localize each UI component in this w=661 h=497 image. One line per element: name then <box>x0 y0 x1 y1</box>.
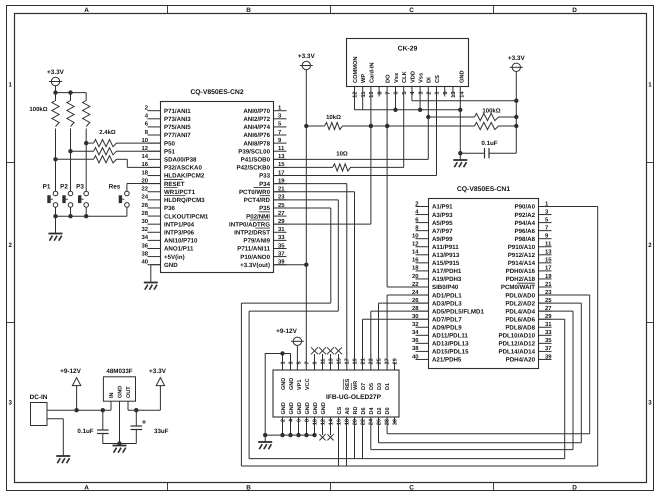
svg-text:5: 5 <box>402 92 408 95</box>
svg-text:+3.3V(out): +3.3V(out) <box>240 262 270 269</box>
svg-text:A19/PDH3: A19/PDH3 <box>432 276 462 283</box>
svg-text:11: 11 <box>278 145 285 152</box>
svg-text:27: 27 <box>385 358 391 364</box>
svg-text:P35: P35 <box>259 205 271 212</box>
svg-text:P98/A8: P98/A8 <box>515 236 536 243</box>
svg-text:11: 11 <box>361 92 367 98</box>
svg-text:27: 27 <box>278 210 285 217</box>
svg-text:INTP0/ADTRG: INTP0/ADTRG <box>229 221 270 228</box>
svg-text:+9-12V: +9-12V <box>276 328 298 335</box>
svg-text:1: 1 <box>435 92 441 95</box>
svg-text:22: 22 <box>361 419 367 425</box>
svg-text:21: 21 <box>545 281 552 288</box>
svg-text:P79/ANI9: P79/ANI9 <box>243 238 270 245</box>
svg-text:+3.3V: +3.3V <box>298 53 316 60</box>
svg-text:GND: GND <box>313 402 319 414</box>
svg-text:15: 15 <box>545 257 552 264</box>
svg-text:SIB0/P40: SIB0/P40 <box>432 284 459 291</box>
svg-text:3: 3 <box>648 400 652 407</box>
svg-text:P914/A14: P914/A14 <box>508 260 536 267</box>
svg-text:B: B <box>246 484 251 491</box>
svg-text:PDH0/A16: PDH0/A16 <box>506 268 536 275</box>
svg-text:RD: RD <box>353 407 359 415</box>
svg-text:WR: WR <box>353 381 359 390</box>
svg-text:7: 7 <box>305 361 311 364</box>
svg-text:40: 40 <box>412 353 419 360</box>
svg-text:A1/P91: A1/P91 <box>432 204 453 211</box>
svg-text:48M033F: 48M033F <box>106 368 132 375</box>
svg-text:D2: D2 <box>377 407 383 414</box>
svg-text:P1: P1 <box>43 184 51 191</box>
svg-text:VCC: VCC <box>305 378 311 390</box>
svg-text:28: 28 <box>141 210 148 217</box>
svg-text:D3: D3 <box>377 383 383 390</box>
svg-text:CQ-V850ES-CN1: CQ-V850ES-CN1 <box>457 186 510 193</box>
svg-text:RESET: RESET <box>164 181 185 188</box>
svg-text:SDA00/P38: SDA00/P38 <box>164 157 197 164</box>
svg-text:32: 32 <box>412 321 419 328</box>
svg-text:38: 38 <box>141 250 148 257</box>
svg-text:AD9/PDL9: AD9/PDL9 <box>432 324 462 331</box>
svg-text:CS: CS <box>435 75 441 83</box>
svg-text:D1: D1 <box>385 383 391 390</box>
svg-text:Vss: Vss <box>419 73 425 83</box>
svg-text:ANI10/P710: ANI10/P710 <box>164 238 198 245</box>
svg-text:10: 10 <box>412 233 419 240</box>
svg-text:PDL14/AD14: PDL14/AD14 <box>498 349 535 356</box>
svg-text:P32/ASCKA0: P32/ASCKA0 <box>164 165 202 172</box>
svg-text:35: 35 <box>545 337 552 344</box>
svg-text:6: 6 <box>297 419 303 422</box>
svg-text:+5V(in): +5V(in) <box>164 254 185 261</box>
svg-text:D: D <box>572 7 577 14</box>
svg-text:21: 21 <box>361 358 367 364</box>
svg-text:P51: P51 <box>164 148 176 155</box>
svg-text:10Ω: 10Ω <box>336 151 348 158</box>
svg-text:36: 36 <box>141 242 148 249</box>
svg-text:2: 2 <box>8 242 12 249</box>
svg-text:14: 14 <box>141 153 148 160</box>
svg-text:3: 3 <box>289 361 295 364</box>
svg-text:23: 23 <box>369 358 375 364</box>
svg-text:PCM0/WAIT: PCM0/WAIT <box>501 284 535 291</box>
svg-text:A11/P911: A11/P911 <box>432 244 459 251</box>
svg-text:13: 13 <box>545 249 552 256</box>
svg-text:HLDRQ/PCM3: HLDRQ/PCM3 <box>164 197 205 204</box>
svg-text:30: 30 <box>393 419 399 425</box>
svg-text:31: 31 <box>545 321 552 328</box>
svg-text:40: 40 <box>141 258 148 265</box>
svg-text:24: 24 <box>141 194 148 201</box>
svg-text:D6: D6 <box>361 407 367 414</box>
svg-text:+3.3V: +3.3V <box>508 55 526 62</box>
svg-text:1: 1 <box>281 361 287 364</box>
svg-text:CLKOUT/PCM1: CLKOUT/PCM1 <box>164 213 209 220</box>
svg-text:100kΩ: 100kΩ <box>29 106 47 113</box>
svg-text:12: 12 <box>321 419 327 425</box>
svg-text:17: 17 <box>545 265 552 272</box>
svg-text:P10/ANO0: P10/ANO0 <box>240 254 270 261</box>
svg-text:RES: RES <box>345 378 351 390</box>
svg-text:16: 16 <box>412 257 419 264</box>
svg-text:2: 2 <box>281 419 287 422</box>
svg-text:15: 15 <box>337 358 343 364</box>
svg-text:IN: IN <box>109 392 115 398</box>
svg-text:GND: GND <box>321 402 327 414</box>
svg-text:D5: D5 <box>369 383 375 390</box>
svg-text:P73/ANI3: P73/ANI3 <box>164 116 191 123</box>
svg-text:D7: D7 <box>361 383 367 390</box>
svg-text:18: 18 <box>345 419 351 425</box>
svg-text:A15/P915: A15/P915 <box>432 260 460 267</box>
svg-text:CQ-V850ES-CN2: CQ-V850ES-CN2 <box>190 89 243 96</box>
svg-text:P42/SCKB0: P42/SCKB0 <box>237 165 271 172</box>
svg-text:19: 19 <box>545 273 552 280</box>
svg-text:AD3/PDL3: AD3/PDL3 <box>432 300 462 307</box>
svg-text:GND: GND <box>281 402 287 414</box>
svg-text:PDL0/AD0: PDL0/AD0 <box>505 292 535 299</box>
svg-text:DC-IN: DC-IN <box>30 394 48 401</box>
svg-text:18: 18 <box>412 265 419 272</box>
svg-text:+3.3V: +3.3V <box>47 69 65 76</box>
svg-text:A: A <box>84 7 89 14</box>
svg-text:+9-12V: +9-12V <box>60 368 82 375</box>
svg-text:A17/PDH1: A17/PDH1 <box>432 268 462 275</box>
svg-text:PDH2/A18: PDH2/A18 <box>506 276 536 283</box>
svg-text:P3: P3 <box>76 184 84 191</box>
svg-text:26: 26 <box>377 419 383 425</box>
svg-text:AD15/PDL15: AD15/PDL15 <box>432 349 469 356</box>
svg-text:COMMON: COMMON <box>353 56 359 83</box>
svg-text:ANI8/P78: ANI8/P78 <box>243 140 270 147</box>
svg-text:HLDAK/PCM2: HLDAK/PCM2 <box>164 173 205 180</box>
svg-text:1: 1 <box>8 82 12 89</box>
svg-text:13: 13 <box>451 92 457 98</box>
svg-text:WP: WP <box>361 74 367 83</box>
svg-text:9: 9 <box>313 361 319 364</box>
svg-text:INTP1/P04: INTP1/P04 <box>164 221 195 228</box>
svg-text:VDD: VDD <box>410 71 416 83</box>
svg-text:WR1/PCT1: WR1/PCT1 <box>164 189 196 196</box>
svg-text:35: 35 <box>278 242 285 249</box>
svg-text:IFB-UG-OLED27P: IFB-UG-OLED27P <box>326 394 382 401</box>
svg-text:PDL12/AD12: PDL12/AD12 <box>498 341 535 348</box>
svg-text:36: 36 <box>412 337 419 344</box>
svg-text:P34: P34 <box>259 181 271 188</box>
svg-text:CK-29: CK-29 <box>398 46 418 53</box>
svg-text:P50: P50 <box>164 140 176 147</box>
svg-text:P33: P33 <box>259 173 271 180</box>
svg-text:P2: P2 <box>60 184 68 191</box>
svg-text:C: C <box>409 484 414 491</box>
svg-text:37: 37 <box>278 250 285 257</box>
svg-text:GND: GND <box>305 402 311 414</box>
svg-text:10kΩ: 10kΩ <box>326 114 341 121</box>
svg-text:19: 19 <box>353 358 359 364</box>
svg-text:PDL10/AD10: PDL10/AD10 <box>498 333 535 340</box>
svg-text:29: 29 <box>393 358 399 364</box>
svg-text:P02/NMI: P02/NMI <box>246 213 270 220</box>
svg-text:ANI0/P70: ANI0/P70 <box>243 108 270 115</box>
svg-text:6: 6 <box>394 92 400 95</box>
svg-text:24: 24 <box>369 418 375 425</box>
svg-text:20: 20 <box>412 273 419 280</box>
svg-text:GND: GND <box>289 402 295 414</box>
svg-text:18: 18 <box>141 169 148 176</box>
svg-text:P77/ANI7: P77/ANI7 <box>164 132 191 139</box>
svg-text:Card-IN: Card-IN <box>368 62 375 83</box>
svg-text:22: 22 <box>141 186 148 193</box>
svg-text:P39/SCL00: P39/SCL00 <box>238 148 270 155</box>
svg-text:8: 8 <box>305 419 311 422</box>
svg-text:P71/ANI1: P71/ANI1 <box>164 108 191 115</box>
svg-text:C: C <box>409 7 414 14</box>
svg-text:9: 9 <box>443 92 449 95</box>
svg-text:DO: DO <box>386 74 392 83</box>
svg-text:2: 2 <box>427 92 433 95</box>
svg-text:14: 14 <box>412 249 419 256</box>
svg-text:GND: GND <box>460 70 466 83</box>
svg-text:P711/ANI11: P711/ANI11 <box>237 246 270 253</box>
svg-text:13: 13 <box>329 358 335 364</box>
svg-text:P96/A6: P96/A6 <box>515 228 536 235</box>
svg-text:PDL8/AD8: PDL8/AD8 <box>505 324 535 331</box>
svg-text:7: 7 <box>386 92 392 95</box>
svg-text:10: 10 <box>313 419 319 425</box>
svg-text:28: 28 <box>385 419 391 425</box>
svg-text:38: 38 <box>412 345 419 352</box>
svg-text:33: 33 <box>545 329 552 336</box>
svg-text:8: 8 <box>377 92 383 95</box>
svg-text:INTP3/P06: INTP3/P06 <box>164 229 195 236</box>
svg-text:16: 16 <box>337 419 343 425</box>
svg-text:A7/P97: A7/P97 <box>432 228 453 235</box>
svg-text:A3/P93: A3/P93 <box>432 212 453 219</box>
svg-text:12: 12 <box>412 241 419 248</box>
svg-text:37: 37 <box>545 345 552 352</box>
svg-text:GND: GND <box>297 402 303 414</box>
svg-text:GND: GND <box>164 262 178 269</box>
svg-text:11: 11 <box>321 359 327 365</box>
svg-text:3: 3 <box>418 92 424 95</box>
svg-text:PDL6/AD6: PDL6/AD6 <box>505 316 535 323</box>
svg-text:20: 20 <box>353 419 359 425</box>
svg-text:+3.3V: +3.3V <box>149 368 167 375</box>
svg-text:A0: A0 <box>345 407 351 414</box>
svg-text:GND: GND <box>289 378 295 390</box>
svg-text:ANO1/P11: ANO1/P11 <box>164 246 194 253</box>
svg-text:Vss: Vss <box>394 73 400 83</box>
svg-text:30: 30 <box>141 218 148 225</box>
svg-text:D0: D0 <box>385 407 391 414</box>
svg-text:INTP2/DRST: INTP2/DRST <box>234 229 270 236</box>
svg-text:PCT0/WR0: PCT0/WR0 <box>239 189 271 196</box>
svg-text:A13/P913: A13/P913 <box>432 252 460 259</box>
svg-text:31: 31 <box>278 226 285 233</box>
svg-text:26: 26 <box>141 202 148 209</box>
svg-text:ANI4/P74: ANI4/P74 <box>243 124 270 131</box>
svg-text:11: 11 <box>545 241 552 248</box>
svg-text:P910/A10: P910/A10 <box>508 244 536 251</box>
svg-text:14: 14 <box>329 418 335 425</box>
svg-text:DI: DI <box>427 77 433 83</box>
svg-text:1: 1 <box>648 82 652 89</box>
svg-text:AD11/PDL11: AD11/PDL11 <box>432 333 468 340</box>
svg-text:A21/PDH5: A21/PDH5 <box>432 357 462 364</box>
svg-text:AD5/PDL5/FLMD1: AD5/PDL5/FLMD1 <box>432 308 484 315</box>
svg-text:2.4kΩ: 2.4kΩ <box>99 129 116 136</box>
svg-text:100kΩ: 100kΩ <box>482 107 500 114</box>
svg-text:A5/P95: A5/P95 <box>432 220 453 227</box>
svg-text:GND: GND <box>118 386 124 398</box>
svg-text:33uF: 33uF <box>154 428 169 435</box>
svg-text:3: 3 <box>8 400 12 407</box>
svg-text:32: 32 <box>141 226 148 233</box>
svg-text:OUT: OUT <box>126 386 132 398</box>
svg-text:CS: CS <box>337 407 343 415</box>
svg-text:D4: D4 <box>369 407 375 415</box>
svg-text:P94/A4: P94/A4 <box>515 220 536 227</box>
svg-text:PCT4/RD: PCT4/RD <box>244 197 271 204</box>
svg-text:P75/ANI5: P75/ANI5 <box>164 124 191 131</box>
svg-text:P912/A12: P912/A12 <box>508 252 536 259</box>
svg-text:A: A <box>84 484 89 491</box>
svg-text:0.1uF: 0.1uF <box>77 428 93 435</box>
svg-text:25: 25 <box>377 358 383 364</box>
svg-text:2: 2 <box>648 242 652 249</box>
svg-text:17: 17 <box>345 358 351 364</box>
svg-text:ANI2/P72: ANI2/P72 <box>243 116 270 123</box>
svg-text:34: 34 <box>412 329 419 336</box>
svg-text:39: 39 <box>545 353 552 360</box>
svg-text:AD13/PDL13: AD13/PDL13 <box>432 341 469 348</box>
svg-text:P92/A2: P92/A2 <box>515 212 536 219</box>
svg-text:Res: Res <box>109 184 121 191</box>
svg-text:P90/A0: P90/A0 <box>515 204 536 211</box>
svg-text:CLK: CLK <box>402 70 408 83</box>
svg-text:PDL2/AD2: PDL2/AD2 <box>505 300 535 307</box>
svg-text:AD1/PDL1: AD1/PDL1 <box>432 292 462 299</box>
svg-text:ANI6/P76: ANI6/P76 <box>243 132 270 139</box>
svg-text:10: 10 <box>369 92 375 98</box>
svg-text:0.1uF: 0.1uF <box>481 140 497 147</box>
svg-text:33: 33 <box>278 234 285 241</box>
svg-text:12: 12 <box>353 92 359 98</box>
svg-text:B: B <box>246 7 251 14</box>
svg-text:AD7/PDL7: AD7/PDL7 <box>432 316 462 323</box>
svg-text:P36: P36 <box>164 205 176 212</box>
svg-text:PDL4/AD4: PDL4/AD4 <box>505 308 535 315</box>
svg-text:A9/P99: A9/P99 <box>432 236 453 243</box>
svg-text:34: 34 <box>141 234 148 241</box>
svg-text:GND: GND <box>281 378 287 390</box>
svg-text:D: D <box>572 484 577 491</box>
svg-text:PDH4/A20: PDH4/A20 <box>506 357 536 364</box>
svg-text:VP1: VP1 <box>297 380 303 390</box>
svg-text:P41/SOB0: P41/SOB0 <box>241 157 271 164</box>
